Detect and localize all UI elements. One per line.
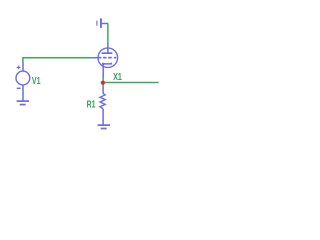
net label I bbox=[96, 21, 97, 26]
tube grid pin bbox=[93, 57, 98, 59]
wire junction down to R1 bbox=[102, 77, 104, 87]
tube envelope circle bbox=[98, 48, 118, 68]
V1 bottom pin bbox=[22, 85, 24, 101]
ground under R1 bbox=[98, 125, 110, 128]
port bar terminal (net I) bbox=[100, 18, 102, 28]
port lead bbox=[102, 23, 109, 25]
svg-text:V1: V1 bbox=[32, 76, 41, 87]
resistor R1 zigzag bbox=[100, 93, 105, 108]
voltage source V1 circle bbox=[16, 71, 30, 85]
resistor R1 bottom lead bbox=[102, 109, 104, 125]
junction node dot bbox=[101, 81, 105, 85]
tube plate pin bbox=[107, 43, 109, 53]
tube grid (dashed) bbox=[99, 57, 117, 59]
minus sign bbox=[17, 88, 21, 90]
V1 top pin bbox=[22, 62, 24, 71]
plus sign bbox=[17, 66, 21, 70]
wire V1 to tube grid bbox=[23, 58, 94, 63]
tube plate (anode) bar bbox=[102, 52, 113, 54]
wire junction to node X1 (right) bbox=[103, 82, 159, 84]
svg-text:X1: X1 bbox=[113, 72, 122, 83]
svg-text:R1: R1 bbox=[87, 100, 96, 111]
ground under V1 bbox=[17, 101, 29, 105]
wire port to tube plate pin bbox=[107, 24, 109, 44]
resistor R1 top pin bbox=[102, 87, 104, 94]
tube cathode bbox=[103, 63, 112, 64]
tube cathode lead bbox=[102, 64, 104, 78]
